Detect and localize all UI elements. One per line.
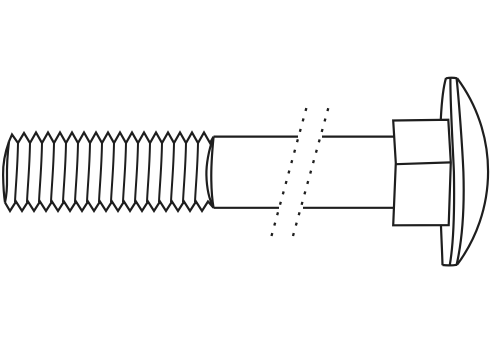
thread runout outer arc [206, 138, 213, 208]
bolt tip outer arc [3, 142, 9, 203]
head dome profile arc [457, 78, 488, 265]
head rim front arc [450, 78, 454, 265]
head rim back arc [440, 78, 446, 265]
thread top zigzag [9, 133, 214, 144]
square neck corner midline [396, 162, 451, 164]
thread runout inner arc [211, 138, 213, 208]
head bottom cap [443, 264, 458, 267]
shank top line left segment [214, 136, 299, 138]
shank bottom line right segment [303, 207, 394, 209]
head inner contour arc [457, 78, 464, 265]
thread bottom zigzag [5, 202, 214, 212]
head top cap [446, 77, 457, 80]
break line left dotted [272, 108, 307, 237]
bolt tip inner arc [5, 142, 9, 203]
square neck face [393, 120, 451, 226]
shank bottom line left segment [214, 207, 280, 209]
thread crest lines [15, 143, 198, 202]
break line right dotted [293, 108, 328, 236]
shank top line right segment [322, 136, 394, 138]
